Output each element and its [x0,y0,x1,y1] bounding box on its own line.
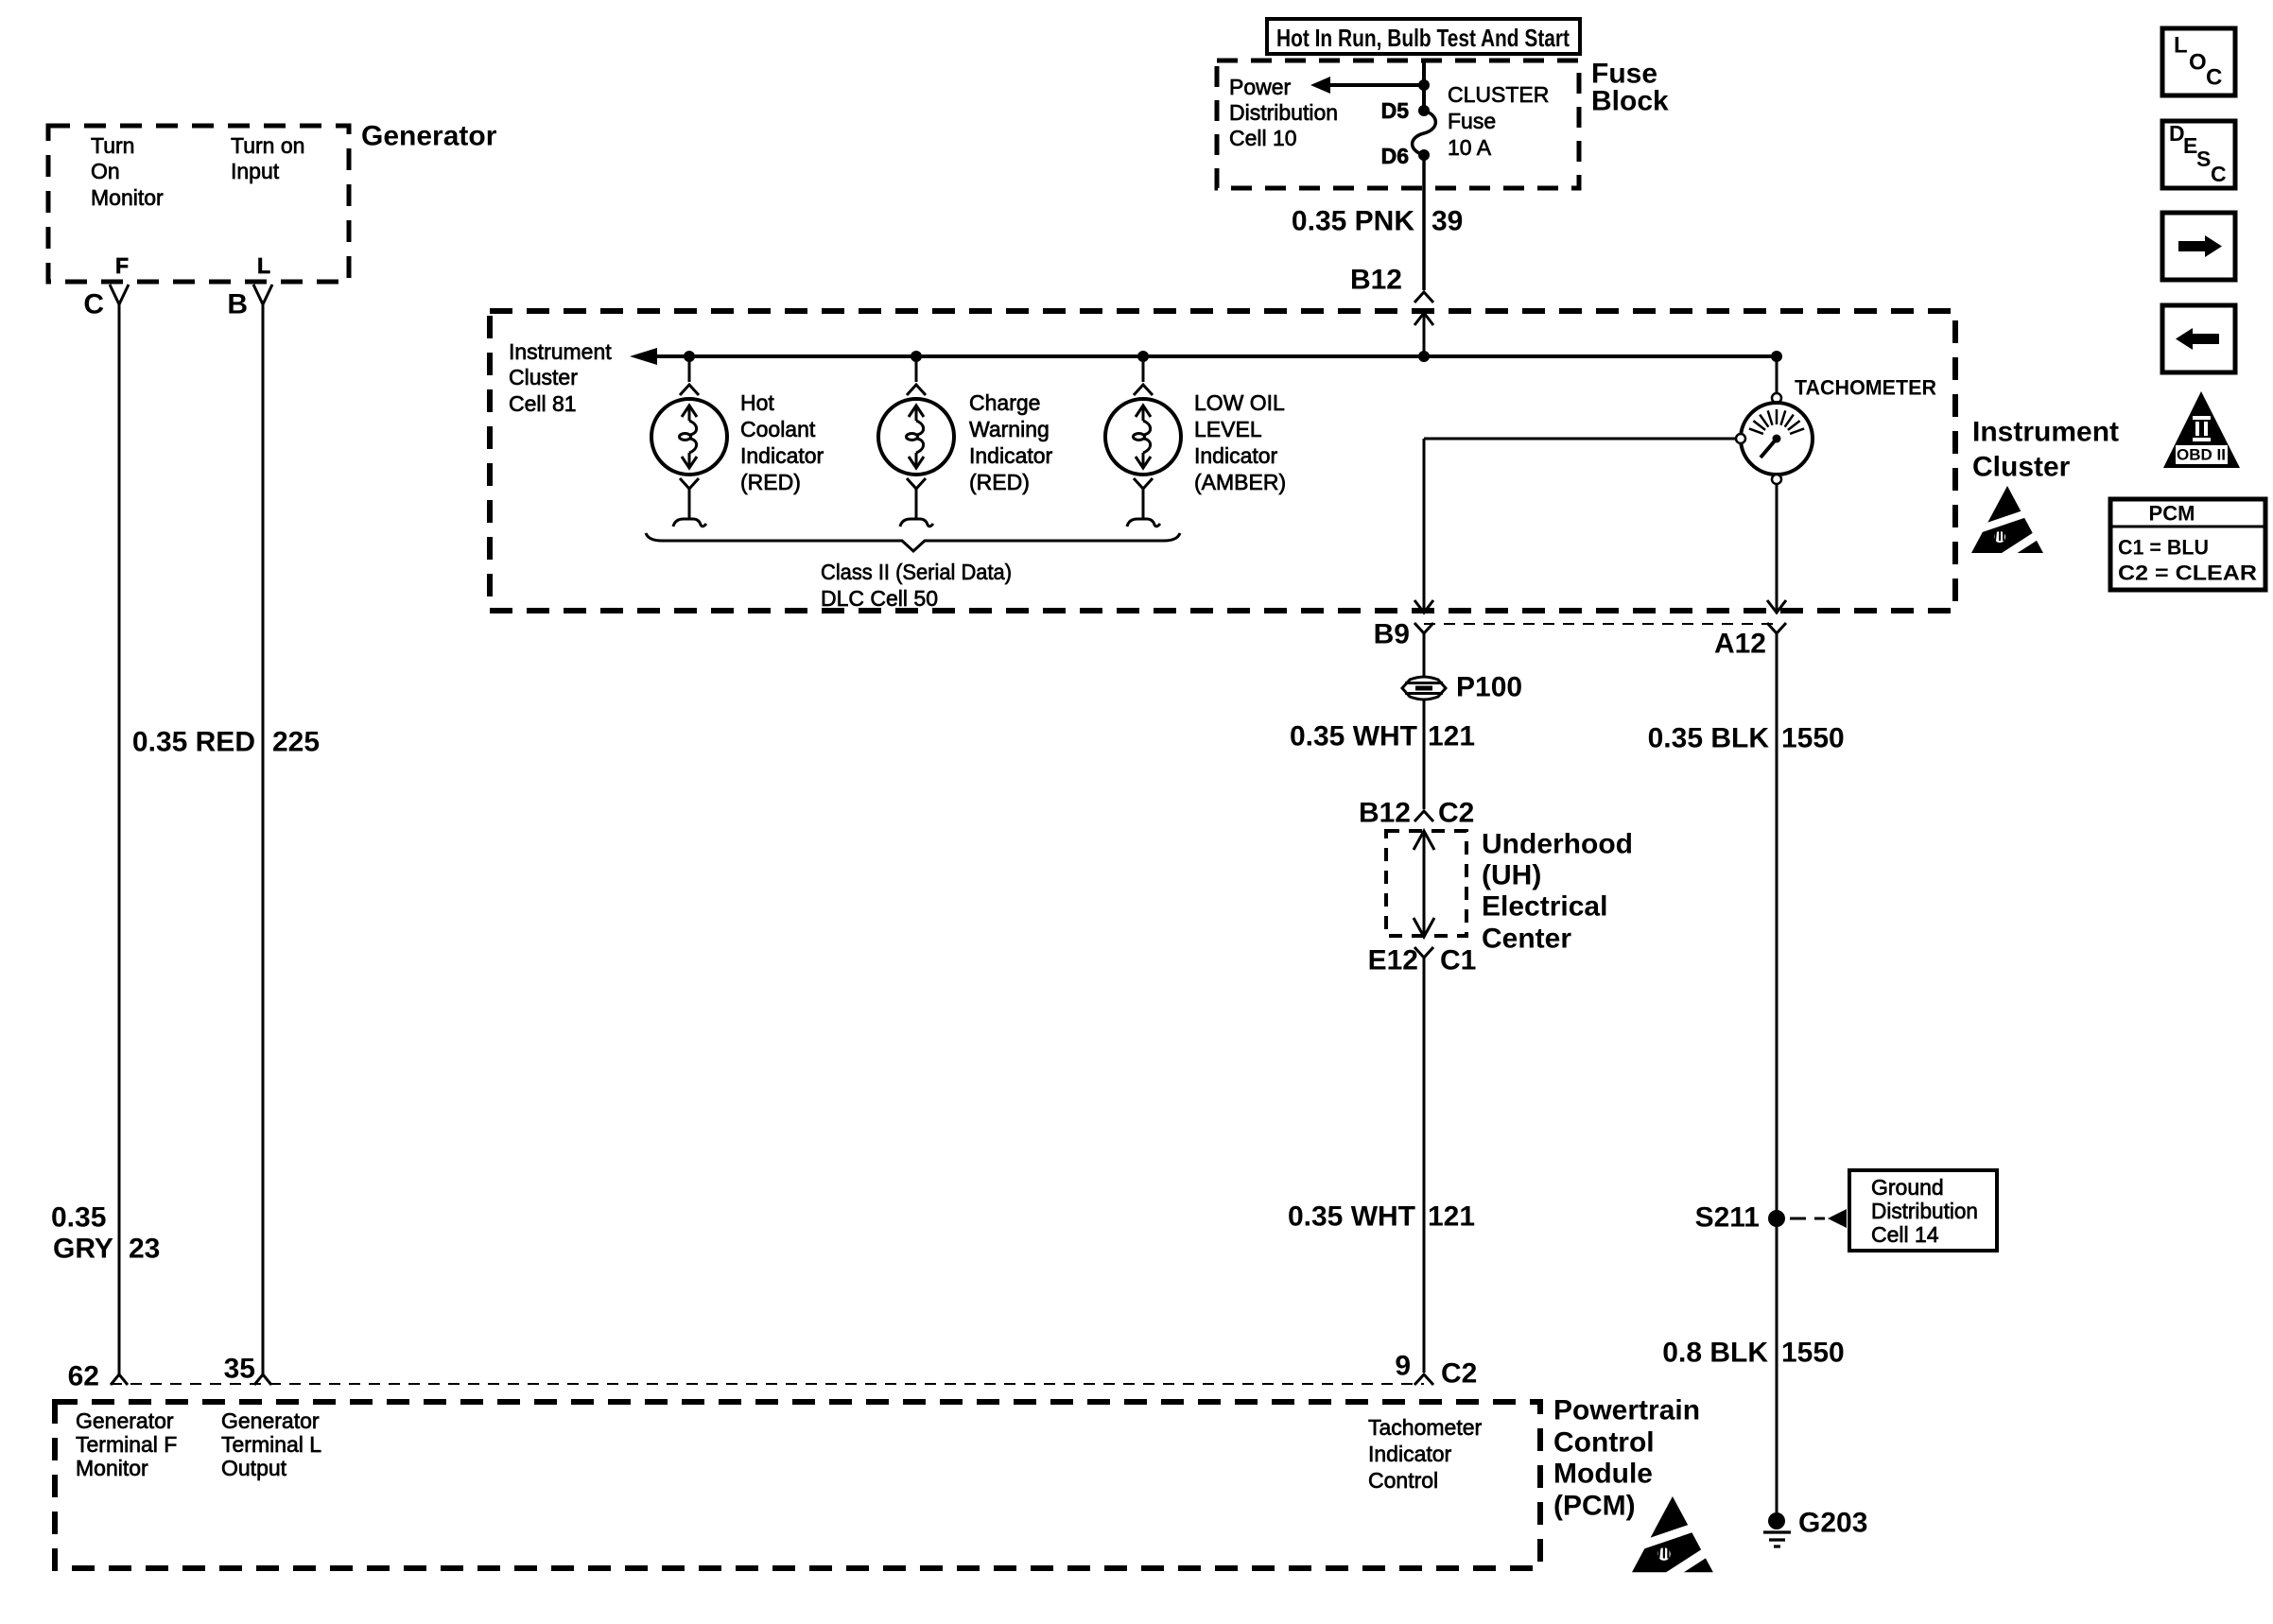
svg-text:Hot In Run, Bulb Test And Star: Hot In Run, Bulb Test And Start [1276,24,1570,52]
svg-text:Terminal L: Terminal L [221,1432,321,1457]
svg-text:DLC Cell 50: DLC Cell 50 [821,586,938,611]
svg-text:Underhood: Underhood [1482,829,1633,860]
svg-text:Output: Output [221,1456,287,1480]
svg-text:Input: Input [231,159,280,183]
svg-text:C: C [2211,162,2227,186]
svg-text:Electrical: Electrical [1482,891,1607,923]
svg-text:Turn: Turn [91,133,134,158]
svg-text:LOW OIL: LOW OIL [1194,390,1285,415]
svg-text:B12: B12 [1359,798,1411,829]
svg-text:Charge: Charge [969,390,1040,415]
svg-text:Cluster: Cluster [1972,452,2071,483]
svg-text:Module: Module [1553,1459,1653,1490]
svg-text:B12: B12 [1350,265,1402,296]
svg-text:Block: Block [1591,86,1669,117]
svg-text:C1: C1 [1440,945,1476,976]
svg-text:1550: 1550 [1781,723,1845,754]
svg-text:O: O [2189,50,2207,76]
svg-text:Coolant: Coolant [740,417,816,441]
svg-text:10 A: 10 A [1448,135,1492,160]
svg-text:B: B [227,289,248,320]
svg-text:Cell 81: Cell 81 [509,391,577,416]
svg-text:23: 23 [129,1234,160,1265]
svg-text:0.35 WHT: 0.35 WHT [1290,721,1417,752]
svg-text:Tachometer: Tachometer [1368,1415,1483,1440]
svg-text:GRY: GRY [53,1234,113,1265]
svg-text:Indicator: Indicator [740,443,824,468]
svg-text:A12: A12 [1714,629,1766,660]
svg-text:Indicator: Indicator [1368,1442,1452,1466]
svg-text:C2: C2 [1438,798,1474,829]
svg-text:225: 225 [272,727,320,758]
svg-text:On: On [91,159,120,183]
svg-text:S: S [2196,147,2211,171]
svg-text:PCM: PCM [2149,502,2195,526]
svg-text:F: F [115,253,129,278]
svg-text:39: 39 [1431,206,1463,237]
svg-text:(UH): (UH) [1482,860,1541,891]
svg-text:Instrument: Instrument [509,339,612,364]
svg-text:Generator: Generator [221,1408,320,1433]
svg-text:Indicator: Indicator [1194,443,1278,468]
svg-text:Terminal F: Terminal F [76,1432,177,1457]
svg-text:C2: C2 [1441,1358,1477,1390]
svg-text:Cell 14: Cell 14 [1871,1222,1939,1247]
svg-text:Class II (Serial Data): Class II (Serial Data) [821,560,1012,584]
svg-text:Powertrain: Powertrain [1553,1395,1700,1426]
svg-text:Power: Power [1229,75,1292,99]
svg-text:Monitor: Monitor [91,185,164,210]
svg-text:G203: G203 [1798,1508,1867,1539]
svg-text:E12: E12 [1368,945,1418,976]
svg-text:9: 9 [1395,1351,1411,1382]
svg-text:CLUSTER: CLUSTER [1448,82,1549,107]
svg-text:C: C [83,289,104,320]
svg-text:TACHOMETER: TACHOMETER [1795,376,1936,400]
svg-text:Center: Center [1482,924,1571,955]
svg-text:Distribution: Distribution [1871,1199,1978,1223]
svg-text:0.35 BLK: 0.35 BLK [1648,723,1770,754]
svg-text:Fuse: Fuse [1448,109,1496,133]
svg-text:0.35 WHT: 0.35 WHT [1288,1201,1415,1233]
svg-text:0.35: 0.35 [51,1202,106,1234]
svg-text:B9: B9 [1374,619,1410,650]
svg-text:Cell 10: Cell 10 [1229,126,1297,150]
svg-text:Monitor: Monitor [76,1456,148,1480]
svg-text:0.8 BLK: 0.8 BLK [1662,1338,1768,1369]
svg-text:0.35 PNK: 0.35 PNK [1292,206,1414,237]
svg-text:Control: Control [1368,1468,1438,1493]
svg-text:(AMBER): (AMBER) [1194,470,1286,494]
svg-text:P100: P100 [1456,672,1522,703]
svg-text:C1 = BLU: C1 = BLU [2118,536,2209,560]
svg-text:(RED): (RED) [740,470,801,494]
svg-text:C: C [2206,65,2222,91]
svg-text:121: 121 [1428,721,1475,752]
svg-text:S211: S211 [1695,1202,1760,1234]
svg-text:D5: D5 [1381,98,1410,123]
svg-text:L: L [2174,33,2188,59]
svg-text:Control: Control [1553,1427,1655,1459]
svg-text:62: 62 [68,1361,99,1392]
svg-text:L: L [257,253,270,278]
svg-text:121: 121 [1428,1201,1475,1233]
svg-text:D6: D6 [1381,144,1409,168]
svg-text:LEVEL: LEVEL [1194,417,1262,441]
svg-text:Indicator: Indicator [969,443,1053,468]
svg-text:Turn on: Turn on [231,133,304,158]
svg-text:Generator: Generator [76,1408,174,1433]
svg-text:Cluster: Cluster [509,365,578,389]
svg-text:Hot: Hot [740,390,774,415]
svg-text:Generator: Generator [361,121,497,152]
svg-text:Ground: Ground [1871,1175,1944,1200]
svg-text:OBD II: OBD II [2177,446,2226,464]
svg-text:(RED): (RED) [969,470,1030,494]
svg-text:0.35 RED: 0.35 RED [132,727,255,758]
svg-text:Distribution: Distribution [1229,100,1338,125]
svg-text:Instrument: Instrument [1972,417,2119,448]
svg-text:C2 = CLEAR: C2 = CLEAR [2118,561,2257,585]
svg-text:(PCM): (PCM) [1553,1491,1636,1522]
svg-text:35: 35 [224,1354,255,1385]
svg-text:Warning: Warning [969,417,1050,441]
svg-text:1550: 1550 [1781,1338,1845,1369]
